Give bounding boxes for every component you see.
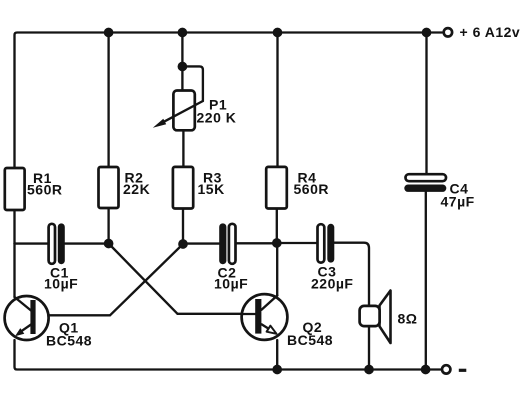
wire Q2 emitter to bottom rail (276, 340, 278, 370)
wire R3 bottom to node B2 (182, 209, 184, 245)
svg-text:+ 6 A12v: + 6 A12v (460, 24, 520, 40)
node B1 junction (104, 239, 114, 249)
wire Q1 base run (36, 314, 110, 316)
wire node C to Q2 collector (276, 243, 278, 296)
resistor R2 (99, 167, 119, 208)
svg-text:10µF: 10µF (214, 276, 248, 292)
capacitor C1 (49, 224, 55, 264)
wire top rail to node P (181, 33, 183, 67)
node P1 wiper junction (178, 62, 188, 72)
wire node C to C3 (277, 242, 318, 244)
node top rail P1 junction (178, 28, 188, 38)
label negative sign (459, 369, 467, 372)
node top rail R2 junction (104, 28, 114, 38)
wire Q1 emitter to bottom rail and bottom rail run (15, 340, 442, 370)
wire cross-couple node B1 to Q2 base (109, 244, 178, 314)
node C junction (272, 238, 282, 248)
resistor R1 (5, 168, 25, 210)
resistor R3 (173, 167, 193, 209)
svg-text:10µF: 10µF (44, 276, 78, 292)
wire C3 to speaker drop (334, 243, 369, 306)
transistor Q1 (5, 296, 49, 340)
transistor Q2 (242, 294, 288, 340)
wire R1 bottom to Q1 collector (13, 210, 15, 297)
capacitor C3 (318, 224, 325, 262)
node top rail C4 junction (422, 28, 432, 38)
wire P1 wiper loop (182, 66, 203, 101)
svg-text:560R: 560R (294, 181, 329, 197)
wire R2 bottom to node B1 (107, 208, 109, 244)
svg-text:15K: 15K (198, 181, 225, 197)
wire node B2 to C2 (183, 242, 219, 244)
node top rail R4 junction (273, 28, 283, 38)
node bottom rail speaker junction (364, 365, 374, 375)
node bottom rail C4 junction (421, 365, 431, 375)
wire C1 to node B1 (65, 242, 109, 244)
wire top rail with left drop to R1 (15, 33, 443, 169)
wire R4 bottom to node C (276, 209, 278, 244)
wire P1 bottom to R3 top (182, 130, 184, 167)
capacitor C2 (219, 223, 226, 264)
svg-text:BC548: BC548 (287, 332, 333, 348)
svg-text:BC548: BC548 (46, 333, 92, 349)
potentiometer P1 wiper arrow (164, 101, 203, 122)
svg-text:8Ω: 8Ω (398, 311, 418, 327)
svg-text:22K: 22K (123, 181, 150, 197)
terminal positive supply (444, 28, 452, 36)
wire C4 to bottom rail (425, 192, 427, 370)
terminal negative supply (442, 365, 450, 373)
wire C2 to node C (236, 242, 277, 244)
wire top rail to R2 (107, 33, 109, 168)
node bottom rail Q2 junction (272, 365, 282, 375)
svg-text:47µF: 47µF (441, 194, 475, 210)
resistor R4 (266, 167, 287, 209)
svg-text:220 K: 220 K (197, 110, 237, 126)
potentiometer P1 body (173, 91, 194, 131)
wire top rail to R4 (276, 33, 278, 168)
wire top rail to C4 (425, 33, 427, 175)
svg-text:560R: 560R (27, 182, 62, 198)
capacitor C4 (406, 174, 447, 181)
wire node P to P1 top (181, 67, 183, 90)
wire speaker to bottom rail (368, 326, 370, 370)
wire cross-couple Q1 base to node B2 (110, 244, 183, 315)
node B2 junction (178, 239, 188, 249)
svg-text:220µF: 220µF (311, 276, 353, 292)
speaker LS1 (360, 291, 391, 344)
wire left rail to C1 (15, 242, 49, 244)
wire into Q2 base (178, 313, 243, 315)
